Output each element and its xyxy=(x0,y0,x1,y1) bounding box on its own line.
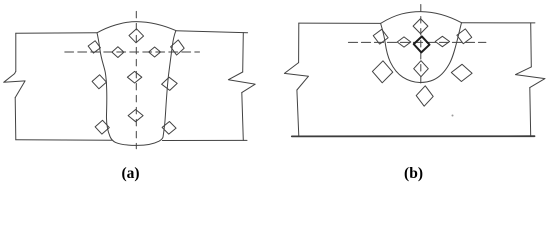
label (b) xyxy=(404,165,423,183)
indent diamond a8 mid-right xyxy=(161,77,177,91)
indent diamond b10 mid-right-outside xyxy=(451,64,472,82)
horizontal dashed measurement line (b) xyxy=(348,41,486,43)
indent diamond a4 row right-inner xyxy=(149,47,161,57)
plate (a) bottom-left line xyxy=(16,139,112,142)
plate (b) bottom line xyxy=(292,135,535,137)
label (a) xyxy=(121,165,139,183)
indent diamond b6 row left-inner xyxy=(397,37,411,47)
indent diamond b3 mid-center xyxy=(414,61,429,77)
weld bead outline (a) xyxy=(97,22,176,146)
plate (a) right edge upper xyxy=(242,33,245,72)
plate (a) left break mark xyxy=(4,71,25,97)
plate (a) right edge lower xyxy=(242,93,244,141)
plate (b) left edge upper xyxy=(298,23,300,63)
plate (b) left edge lower xyxy=(297,90,299,136)
scan speck artifact xyxy=(452,115,454,117)
indent diamond a3 row left-inner xyxy=(112,47,124,58)
plate (a) right break mark xyxy=(228,72,255,93)
indent diamond a9 lower-center xyxy=(128,110,143,122)
indent diamond a5 row right-outer xyxy=(170,39,185,56)
indent diamond a11 bottom-right xyxy=(162,121,177,134)
horizontal dashed measurement line (a) xyxy=(65,51,200,53)
plate (a) left edge upper xyxy=(15,33,17,71)
weld nugget outline (b) xyxy=(381,12,462,83)
indent diamond b1 top-center xyxy=(413,19,428,34)
indent diamond a1 top-center xyxy=(129,29,144,44)
indent diamond a7 mid-center xyxy=(127,71,141,83)
indent diamond b5 row left-outer xyxy=(372,28,389,45)
plate (b) right break mark xyxy=(516,67,546,88)
indent diamond a2 row left-outer xyxy=(87,40,101,54)
plate (b) top-left line xyxy=(299,22,381,24)
indent diamond b2 center bold xyxy=(413,36,429,53)
plate (a) left edge lower xyxy=(14,98,17,140)
indent diamond a10 bottom-left xyxy=(95,120,110,135)
indent diamond b7 row right-inner xyxy=(435,36,449,46)
plate (b) right edge lower xyxy=(529,88,532,137)
indent diamond b4 bottom-center xyxy=(416,85,434,106)
vertical dashed centerline (b) xyxy=(420,5,422,86)
plate (a) top-right line xyxy=(176,31,248,33)
plate (b) left break mark xyxy=(284,63,308,90)
plate (b) top-right line xyxy=(462,22,535,24)
indent diamond a6 mid-left xyxy=(92,74,107,89)
indent diamond b8 row right-outer xyxy=(456,28,473,45)
indent diamond b9 mid-left-outside xyxy=(372,60,393,83)
plate (a) top-left line xyxy=(16,32,97,34)
vertical dashed centerline (a) xyxy=(135,11,137,148)
plate (b) right edge upper xyxy=(530,23,533,67)
plate (a) bottom-right line xyxy=(162,139,247,141)
